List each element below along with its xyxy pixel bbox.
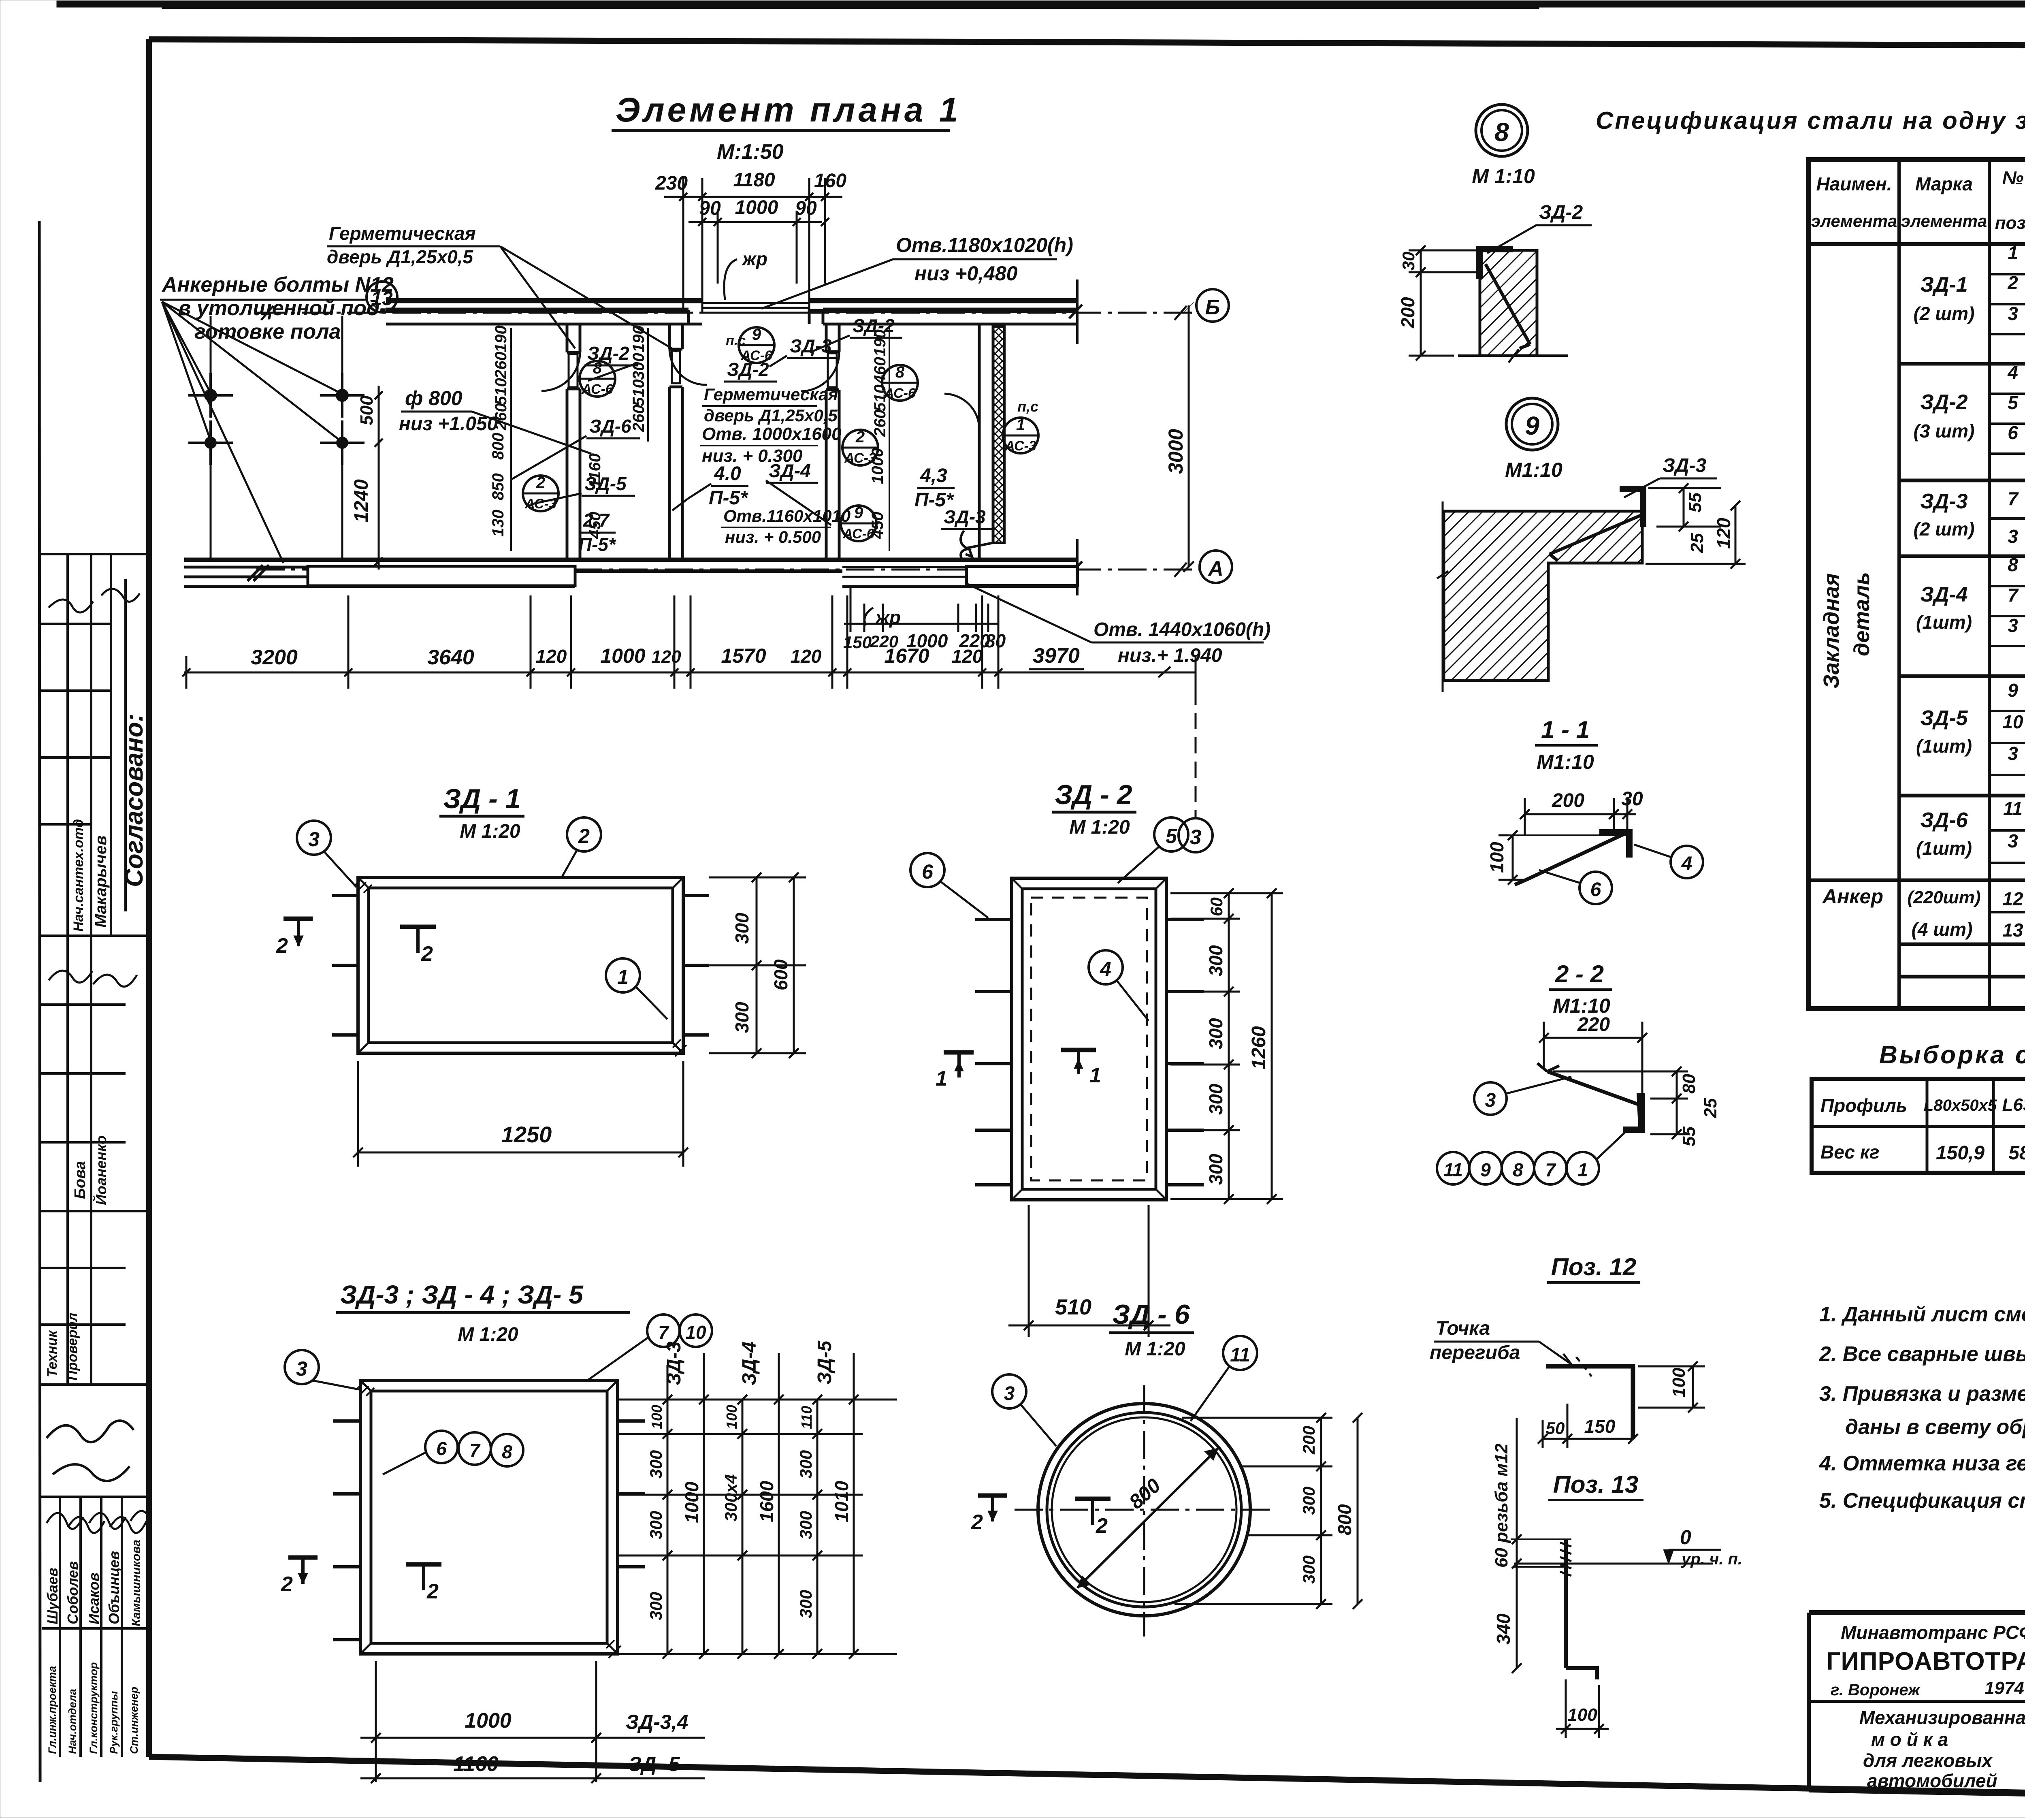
svg-text:жр: жр bbox=[874, 607, 901, 628]
svg-text:М 1:20: М 1:20 bbox=[460, 821, 520, 842]
svg-text:ЗД- 5: ЗД- 5 bbox=[629, 1753, 680, 1775]
circle 11 bbox=[1223, 1336, 1257, 1370]
axis А bbox=[256, 569, 1199, 571]
LEFT-SIGNATURE-STRIP bbox=[39, 554, 151, 1757]
right dim chains x3 bbox=[618, 1353, 897, 1659]
svg-text:Отв.1180х1020(h): Отв.1180х1020(h) bbox=[896, 234, 1073, 256]
svg-text:1974 г: 1974 г bbox=[1985, 1678, 2025, 1698]
bottom dim 510 bbox=[1008, 1205, 1170, 1337]
svg-text:L63х5: L63х5 bbox=[2002, 1095, 2025, 1115]
level line bbox=[1514, 1563, 1713, 1565]
svg-text:г. Воронеж: г. Воронеж bbox=[1831, 1681, 1921, 1699]
DETAIL ЗД-6 bbox=[971, 1299, 1362, 1637]
svg-text:L80х50х5: L80х50х5 bbox=[1924, 1097, 1997, 1114]
1 section marks bbox=[944, 1050, 974, 1055]
rotated dim stacks bbox=[489, 325, 889, 539]
svg-text:ЗД - 1: ЗД - 1 bbox=[443, 783, 520, 814]
top wall band bbox=[386, 280, 1082, 344]
NOTES bbox=[1819, 1233, 2025, 1513]
POS 13 bbox=[1492, 1418, 1742, 1738]
bottom wall band bbox=[184, 539, 1082, 595]
svg-text:3: 3 bbox=[2008, 526, 2018, 547]
anchor stubs bbox=[333, 1421, 645, 1640]
svg-text:300: 300 bbox=[731, 913, 752, 944]
100 dim left bbox=[1486, 830, 1523, 885]
svg-text:340: 340 bbox=[1493, 1613, 1514, 1645]
svg-text:13: 13 bbox=[2002, 920, 2023, 941]
circle 3 bbox=[992, 1374, 1026, 1408]
svg-text:низ. + 0.500: низ. + 0.500 bbox=[725, 527, 821, 546]
scan streak top edge bbox=[57, 1, 2025, 7]
svg-text:2: 2 bbox=[276, 934, 288, 958]
svg-text:ГИПРОАВТОТРАНС: ГИПРОАВТОТРАНС bbox=[1826, 1647, 2025, 1675]
svg-text:260: 260 bbox=[492, 352, 510, 379]
svg-text:Минавтотранс РСФСР: Минавтотранс РСФСР bbox=[1841, 1622, 2025, 1643]
svg-text:190: 190 bbox=[630, 325, 648, 352]
svg-text:300: 300 bbox=[796, 1450, 815, 1479]
svg-text:м о й к а: м о й к а bbox=[1871, 1729, 1948, 1750]
DETAIL ЗД-2 bbox=[910, 779, 1283, 1337]
svg-text:в утолщенной под-: в утолщенной под- bbox=[178, 297, 386, 320]
circle 1 bbox=[606, 958, 640, 992]
svg-text:дверь Д1,25х0,5: дверь Д1,25х0,5 bbox=[704, 406, 838, 425]
svg-text:М 1:10: М 1:10 bbox=[1472, 165, 1535, 188]
svg-text:Анкер: Анкер bbox=[1822, 885, 1883, 908]
embedded angle ЗД-3 black Z bbox=[1620, 486, 1646, 527]
svg-text:6: 6 bbox=[2008, 422, 2018, 443]
svg-text:150,9: 150,9 bbox=[1936, 1142, 1985, 1164]
svg-text:7: 7 bbox=[469, 1440, 481, 1461]
svg-text:55: 55 bbox=[1685, 493, 1705, 512]
svg-text:низ +0,480: низ +0,480 bbox=[914, 262, 1018, 285]
svg-text:120: 120 bbox=[536, 646, 567, 667]
svg-text:2 - 2: 2 - 2 bbox=[1555, 960, 1604, 988]
svg-text:2: 2 bbox=[578, 825, 590, 847]
svg-text:2.7: 2.7 bbox=[583, 510, 610, 531]
svg-text:низ.+ 1.940: низ.+ 1.940 bbox=[1118, 645, 1222, 666]
svg-text:5: 5 bbox=[2008, 392, 2019, 413]
svg-text:200: 200 bbox=[1397, 297, 1418, 329]
svg-text:120: 120 bbox=[651, 647, 681, 667]
hatched partition strip bbox=[993, 326, 1004, 543]
svg-text:(3 шт): (3 шт) bbox=[1914, 420, 1975, 442]
svg-text:Проверил: Проверил bbox=[65, 1313, 80, 1380]
svg-text:2: 2 bbox=[426, 1580, 439, 1603]
svg-text:жр: жр bbox=[741, 248, 767, 269]
svg-text:ЗД-2: ЗД-2 bbox=[853, 315, 895, 336]
svg-text:М 1:20: М 1:20 bbox=[458, 1324, 518, 1345]
angle at right black bbox=[1600, 830, 1632, 857]
svg-text:100: 100 bbox=[1669, 1368, 1689, 1398]
svg-text:2: 2 bbox=[536, 474, 545, 492]
svg-text:элемента: элемента bbox=[1811, 211, 1897, 230]
svg-text:(4 шт): (4 шт) bbox=[1912, 919, 1973, 940]
dims bbox=[1538, 1361, 1705, 1448]
POS 12 bbox=[1430, 1253, 1705, 1448]
svg-text:элемента: элемента bbox=[1901, 211, 1987, 230]
svg-text:П-5*: П-5* bbox=[709, 487, 748, 509]
svg-text:3: 3 bbox=[1004, 1383, 1015, 1404]
svg-text:(1шт): (1шт) bbox=[1916, 612, 1972, 633]
svg-text:100: 100 bbox=[1567, 1705, 1597, 1725]
svg-text:8: 8 bbox=[502, 1441, 512, 1462]
svg-text:6: 6 bbox=[436, 1438, 447, 1459]
svg-text:ЗД-5: ЗД-5 bbox=[584, 473, 627, 494]
svg-text:ЗД-5: ЗД-5 bbox=[1920, 706, 1968, 730]
ground line bbox=[1458, 354, 1568, 357]
svg-text:1250: 1250 bbox=[501, 1122, 552, 1147]
svg-text:160: 160 bbox=[814, 170, 846, 192]
svg-text:1160: 1160 bbox=[453, 1752, 499, 1776]
svg-text:Гл.инж.проекта: Гл.инж.проекта bbox=[46, 1666, 58, 1754]
svg-text:2: 2 bbox=[1096, 1514, 1108, 1538]
svg-text:30: 30 bbox=[1399, 252, 1418, 271]
svg-text:10: 10 bbox=[685, 1322, 706, 1343]
svg-text:58,8: 58,8 bbox=[2008, 1142, 2025, 1164]
svg-text:Спецификация стали на одну: Спецификация стали на одну закладную дет… bbox=[1596, 107, 2025, 134]
2T mark + T2 bbox=[978, 1494, 1007, 1498]
svg-text:1: 1 bbox=[1089, 1064, 1101, 1087]
svg-text:Исаков: Исаков bbox=[85, 1572, 102, 1624]
partitions bbox=[541, 324, 1004, 560]
left dims bbox=[1397, 245, 1477, 361]
svg-text:П-5*: П-5* bbox=[578, 534, 616, 555]
leaders from anchor label bbox=[162, 302, 341, 563]
svg-text:ЗД-3,4: ЗД-3,4 bbox=[626, 1711, 688, 1733]
partition P3 bbox=[825, 324, 828, 352]
svg-text:М 1:20: М 1:20 bbox=[1125, 1338, 1185, 1360]
partition P1 bbox=[566, 324, 569, 352]
svg-text:4: 4 bbox=[1100, 958, 1111, 980]
svg-text:300: 300 bbox=[646, 1592, 665, 1620]
SECTION 2-2 bbox=[1437, 960, 1720, 1184]
svg-text:8: 8 bbox=[1513, 1159, 1523, 1180]
svg-text:деталь: деталь bbox=[1850, 572, 1874, 656]
svg-text:Поз. 13: Поз. 13 bbox=[1553, 1471, 1639, 1498]
2T mark left bbox=[283, 917, 313, 921]
svg-text:Рук.группы: Рук.группы bbox=[108, 1691, 120, 1754]
svg-text:7: 7 bbox=[2008, 488, 2019, 509]
svg-text:ЗД-3: ЗД-3 bbox=[1920, 490, 1967, 513]
circle 2 bbox=[567, 817, 601, 851]
svg-text:3: 3 bbox=[296, 1357, 307, 1380]
svg-text:10: 10 bbox=[2002, 711, 2023, 732]
svg-text:100: 100 bbox=[723, 1405, 740, 1429]
svg-text:80: 80 bbox=[985, 630, 1006, 651]
rod bbox=[1547, 1071, 1640, 1105]
svg-text:300х4: 300х4 bbox=[721, 1474, 740, 1521]
svg-text:ур. ч. п.: ур. ч. п. bbox=[1681, 1550, 1742, 1568]
svg-text:ЗД - 2: ЗД - 2 bbox=[1055, 779, 1132, 810]
bent bar bbox=[1546, 1366, 1633, 1439]
svg-text:1260: 1260 bbox=[1248, 1026, 1270, 1069]
diameter arrow 800 bbox=[1077, 1448, 1218, 1588]
svg-text:510: 510 bbox=[630, 379, 648, 406]
right dims bbox=[1646, 483, 1746, 569]
partition P2 bbox=[668, 324, 671, 349]
svg-text:Йоаненко: Йоаненко bbox=[92, 1135, 109, 1205]
svg-text:АС-6: АС-6 bbox=[884, 386, 916, 401]
svg-text:2. Все сварные швы h = 6 мм: 2. Все сварные швы h = 6 мм bbox=[1819, 1342, 2025, 1366]
svg-text:автомобилей: автомобилей bbox=[1867, 1770, 1997, 1791]
svg-text:(1шт): (1шт) bbox=[1916, 838, 1972, 859]
circle 5 bbox=[1154, 817, 1188, 851]
partition P4 bbox=[978, 324, 981, 560]
svg-text:300: 300 bbox=[731, 1002, 752, 1033]
svg-text:8: 8 bbox=[895, 363, 905, 381]
svg-text:300: 300 bbox=[1205, 1154, 1226, 1185]
DETAIL ЗД-3,4,5 bbox=[281, 1280, 897, 1783]
rod diagonal bbox=[1526, 834, 1625, 880]
svg-text:260: 260 bbox=[630, 405, 648, 432]
svg-text:ф 800: ф 800 bbox=[405, 387, 463, 410]
svg-text:Элемент плана 1: Элемент плана 1 bbox=[616, 91, 961, 129]
svg-text:4,3: 4,3 bbox=[920, 465, 947, 486]
svg-text:230: 230 bbox=[655, 173, 688, 194]
svg-text:1: 1 bbox=[1016, 416, 1025, 434]
svg-text:2: 2 bbox=[2007, 272, 2018, 293]
svg-text:Анкерные болты N12: Анкерные болты N12 bbox=[161, 273, 394, 297]
svg-text:АС-3: АС-3 bbox=[524, 496, 556, 512]
svg-text:300: 300 bbox=[1299, 1487, 1318, 1515]
svg-text:3640: 3640 bbox=[427, 646, 474, 669]
right dims bbox=[1553, 1067, 1720, 1146]
svg-text:130: 130 bbox=[489, 510, 507, 537]
svg-text:Б: Б bbox=[1205, 296, 1220, 319]
svg-text:1240: 1240 bbox=[351, 479, 372, 523]
svg-text:3970: 3970 bbox=[1033, 644, 1080, 668]
svg-text:ЗД-4: ЗД-4 bbox=[739, 1342, 760, 1385]
svg-text:АС-3: АС-3 bbox=[1004, 438, 1036, 454]
svg-text:1570: 1570 bbox=[721, 644, 766, 667]
svg-text:9: 9 bbox=[1525, 411, 1539, 440]
svg-text:3: 3 bbox=[2008, 303, 2018, 324]
svg-text:60 резьба м12: 60 резьба м12 bbox=[1492, 1443, 1511, 1568]
svg-text:1180: 1180 bbox=[733, 169, 775, 191]
svg-text:800: 800 bbox=[1334, 1504, 1355, 1535]
TITLE BLOCK bbox=[1809, 1613, 2025, 1801]
svg-text:АС-6: АС-6 bbox=[842, 526, 875, 542]
svg-text:1: 1 bbox=[936, 1067, 947, 1090]
axis 3 marker bbox=[1195, 689, 1197, 818]
svg-text:(2 шт): (2 шт) bbox=[1914, 303, 1975, 324]
svg-text:п,с: п,с bbox=[1017, 398, 1038, 415]
embedded angle black bbox=[1476, 246, 1513, 279]
svg-text:9: 9 bbox=[854, 504, 863, 522]
outer sheet edge left bbox=[39, 221, 40, 1782]
svg-text:300: 300 bbox=[796, 1590, 815, 1618]
svg-text:200: 200 bbox=[1552, 790, 1584, 811]
svg-text:1000: 1000 bbox=[600, 644, 645, 667]
svg-text:А: А bbox=[1207, 557, 1224, 580]
svg-text:ЗД-3: ЗД-3 bbox=[1663, 455, 1706, 476]
svg-text:120: 120 bbox=[952, 646, 983, 667]
svg-text:ЗД-2: ЗД-2 bbox=[1920, 390, 1967, 414]
svg-text:190: 190 bbox=[492, 325, 510, 352]
svg-text:600: 600 bbox=[770, 959, 791, 990]
bottom dim 1250 bbox=[353, 1061, 688, 1167]
T2 inside bbox=[406, 1562, 441, 1567]
svg-text:Нач.отдела: Нач.отдела bbox=[66, 1689, 79, 1754]
svg-text:7: 7 bbox=[1545, 1159, 1556, 1180]
svg-text:300: 300 bbox=[1205, 945, 1226, 976]
svg-text:Поз. 12: Поз. 12 bbox=[1551, 1253, 1637, 1280]
top dim row 1: 230 1180 160 bbox=[655, 169, 846, 312]
svg-text:80: 80 bbox=[1679, 1074, 1699, 1094]
anchor bolt crosses bbox=[188, 316, 364, 560]
svg-text:ЗД-1: ЗД-1 bbox=[1920, 273, 1967, 297]
svg-text:4. Отметка низа герметически: 4. Отметка низа герметических дверей + 0… bbox=[1819, 1452, 2025, 1475]
svg-text:3: 3 bbox=[1485, 1090, 1496, 1111]
PLAN: Элемент плана 1 bbox=[160, 91, 1270, 852]
svg-text:1: 1 bbox=[617, 966, 629, 988]
svg-text:Бова: Бова bbox=[72, 1161, 89, 1199]
concrete L shape hatched bbox=[1444, 511, 1642, 681]
svg-text:Нач.сантех.отд: Нач.сантех.отд bbox=[71, 819, 86, 932]
corner weld ticks bbox=[358, 877, 683, 1053]
main bottom dim chain bbox=[182, 595, 1196, 689]
svg-text:500: 500 bbox=[357, 395, 377, 425]
svg-text:9: 9 bbox=[2008, 680, 2018, 701]
svg-text:ЗД-3: ЗД-3 bbox=[663, 1342, 685, 1385]
svg-text:510: 510 bbox=[1055, 1295, 1091, 1319]
svg-text:Выборка стали по профилям: Выборка стали по профилям на лист bbox=[1879, 1041, 2025, 1069]
svg-text:55: 55 bbox=[1679, 1127, 1699, 1146]
svg-text:ЗД-6: ЗД-6 bbox=[589, 416, 631, 437]
svg-text:8: 8 bbox=[1494, 117, 1509, 147]
svg-text:3. Привязка и размеры отверс: 3. Привязка и размеры отверстий в перего… bbox=[1819, 1382, 2025, 1406]
svg-text:ЗД-3: ЗД-3 bbox=[944, 506, 986, 527]
svg-text:1010: 1010 bbox=[831, 1481, 852, 1522]
svg-text:ЗД-2: ЗД-2 bbox=[1539, 202, 1583, 223]
thin top line bbox=[1498, 834, 1618, 836]
svg-text:1670: 1670 bbox=[884, 644, 929, 667]
svg-text:1: 1 bbox=[2008, 242, 2018, 263]
circle 4 bbox=[1089, 950, 1123, 984]
svg-text:2: 2 bbox=[971, 1511, 983, 1534]
svg-text:4.0: 4.0 bbox=[714, 463, 741, 484]
svg-text:М1:10: М1:10 bbox=[1505, 459, 1562, 481]
svg-text:М1:10: М1:10 bbox=[1537, 751, 1594, 773]
SPEC TABLE bbox=[1596, 107, 2025, 1009]
svg-text:1 - 1: 1 - 1 bbox=[1541, 716, 1590, 743]
svg-text:200: 200 bbox=[1299, 1426, 1318, 1455]
svg-text:9: 9 bbox=[1480, 1159, 1491, 1180]
svg-text:2: 2 bbox=[281, 1572, 293, 1596]
anchor stubs bbox=[332, 896, 709, 1035]
SECTION 8 detail bbox=[1397, 105, 1592, 363]
2T mark bbox=[288, 1555, 318, 1560]
3000 dim right bbox=[1188, 305, 1190, 567]
svg-text:М 1:20: М 1:20 bbox=[1069, 817, 1130, 838]
svg-text:4: 4 bbox=[1681, 853, 1692, 875]
svg-text:Техник: Техник bbox=[45, 1330, 60, 1377]
DETAIL ЗД-1 bbox=[276, 783, 806, 1167]
svg-text:3: 3 bbox=[2008, 743, 2018, 764]
жр opening thin lines bbox=[702, 302, 809, 304]
svg-text:260: 260 bbox=[492, 403, 510, 431]
circle 6 bbox=[910, 853, 944, 887]
svg-text:М:1:50: М:1:50 bbox=[717, 140, 784, 164]
svg-text:1600: 1600 bbox=[756, 1481, 777, 1522]
svg-text:50: 50 bbox=[1546, 1419, 1565, 1438]
svg-text:1. Данный лист смотреть соб: 1. Данный лист смотреть собместно с лист… bbox=[1819, 1303, 2025, 1326]
svg-text:Камышникова: Камышникова bbox=[130, 1540, 143, 1626]
svg-text:Отв. 1440х1060(h): Отв. 1440х1060(h) bbox=[1093, 619, 1270, 640]
svg-text:5. Спецификация стали состав: 5. Спецификация стали составлена для t =… bbox=[1819, 1489, 2025, 1513]
svg-text:Отв.1160х1010: Отв.1160х1010 bbox=[723, 506, 850, 525]
svg-text:Герметическая: Герметическая bbox=[704, 385, 838, 404]
svg-text:110: 110 bbox=[798, 1406, 815, 1429]
circles 6 7 8 bbox=[425, 1431, 458, 1463]
svg-text:11: 11 bbox=[2003, 798, 2023, 819]
svg-text:поз.: поз. bbox=[1995, 213, 2025, 233]
svg-text:120: 120 bbox=[1713, 518, 1734, 549]
svg-text:150: 150 bbox=[1584, 1416, 1616, 1437]
svg-text:ЗД-2: ЗД-2 bbox=[727, 359, 769, 380]
svg-text:ЗД-4: ЗД-4 bbox=[1920, 583, 1967, 606]
edge break line bbox=[1442, 501, 1444, 692]
VYBORKA TABLE bbox=[1812, 1041, 2025, 1173]
svg-text:11: 11 bbox=[1230, 1344, 1250, 1366]
svg-text:перегиба: перегиба bbox=[1430, 1342, 1520, 1363]
svg-text:готовке пола: готовке пола bbox=[194, 320, 341, 344]
svg-text:1000: 1000 bbox=[681, 1481, 702, 1523]
svg-text:№: № bbox=[2002, 167, 2024, 188]
svg-text:даны в свету обрамляющих их: даны в свету обрамляющих их закладных де… bbox=[1845, 1415, 2025, 1439]
svg-text:12: 12 bbox=[2002, 888, 2023, 909]
leader polylines plan bbox=[510, 335, 850, 525]
svg-text:3200: 3200 bbox=[251, 646, 298, 669]
bottom 100 bbox=[1556, 1679, 1609, 1738]
right dims bbox=[1174, 1413, 1362, 1609]
svg-text:0: 0 bbox=[1680, 1526, 1691, 1549]
svg-text:8: 8 bbox=[2008, 554, 2018, 575]
crosshair bbox=[1143, 1385, 1145, 1637]
svg-text:1: 1 bbox=[1577, 1159, 1588, 1180]
circles row bbox=[1437, 1152, 1469, 1184]
svg-text:100: 100 bbox=[1486, 842, 1507, 873]
svg-text:Макарычев: Макарычев bbox=[92, 836, 110, 928]
svg-text:7: 7 bbox=[658, 1322, 669, 1343]
svg-text:Соболев: Соболев bbox=[64, 1561, 81, 1624]
small vertical dim lines in rooms bbox=[511, 328, 889, 551]
main frame bbox=[149, 39, 2025, 47]
svg-text:300: 300 bbox=[1205, 1018, 1226, 1049]
svg-text:5: 5 bbox=[1166, 825, 1177, 847]
svg-text:ЗД - 6: ЗД - 6 bbox=[1112, 1299, 1190, 1330]
svg-text:Марка: Марка bbox=[1915, 173, 1973, 194]
svg-text:30: 30 bbox=[1621, 788, 1643, 810]
svg-text:Вес кг: Вес кг bbox=[1820, 1142, 1880, 1163]
svg-text:АС-3: АС-3 bbox=[844, 450, 876, 466]
svg-text:Ст.инженер: Ст.инженер bbox=[128, 1687, 140, 1754]
svg-text:6: 6 bbox=[1590, 879, 1601, 900]
axis Б bbox=[256, 312, 1196, 314]
jogs at opening bbox=[688, 310, 702, 324]
svg-text:Наимен.: Наимен. bbox=[1816, 173, 1892, 194]
svg-text:Закладная: Закладная bbox=[1819, 573, 1844, 689]
svg-text:Объинцев: Объинцев bbox=[106, 1551, 122, 1624]
svg-text:11: 11 bbox=[1443, 1159, 1463, 1180]
svg-text:13: 13 bbox=[371, 288, 393, 309]
svg-text:300: 300 bbox=[1205, 1084, 1226, 1115]
svg-text:1000: 1000 bbox=[735, 197, 778, 218]
svg-text:(220шт): (220шт) bbox=[1908, 888, 1981, 907]
SECTION 1-1 bbox=[1486, 716, 1703, 904]
svg-text:260: 260 bbox=[871, 410, 889, 437]
svg-text:дверь Д1,25х0,5: дверь Д1,25х0,5 bbox=[327, 246, 474, 267]
